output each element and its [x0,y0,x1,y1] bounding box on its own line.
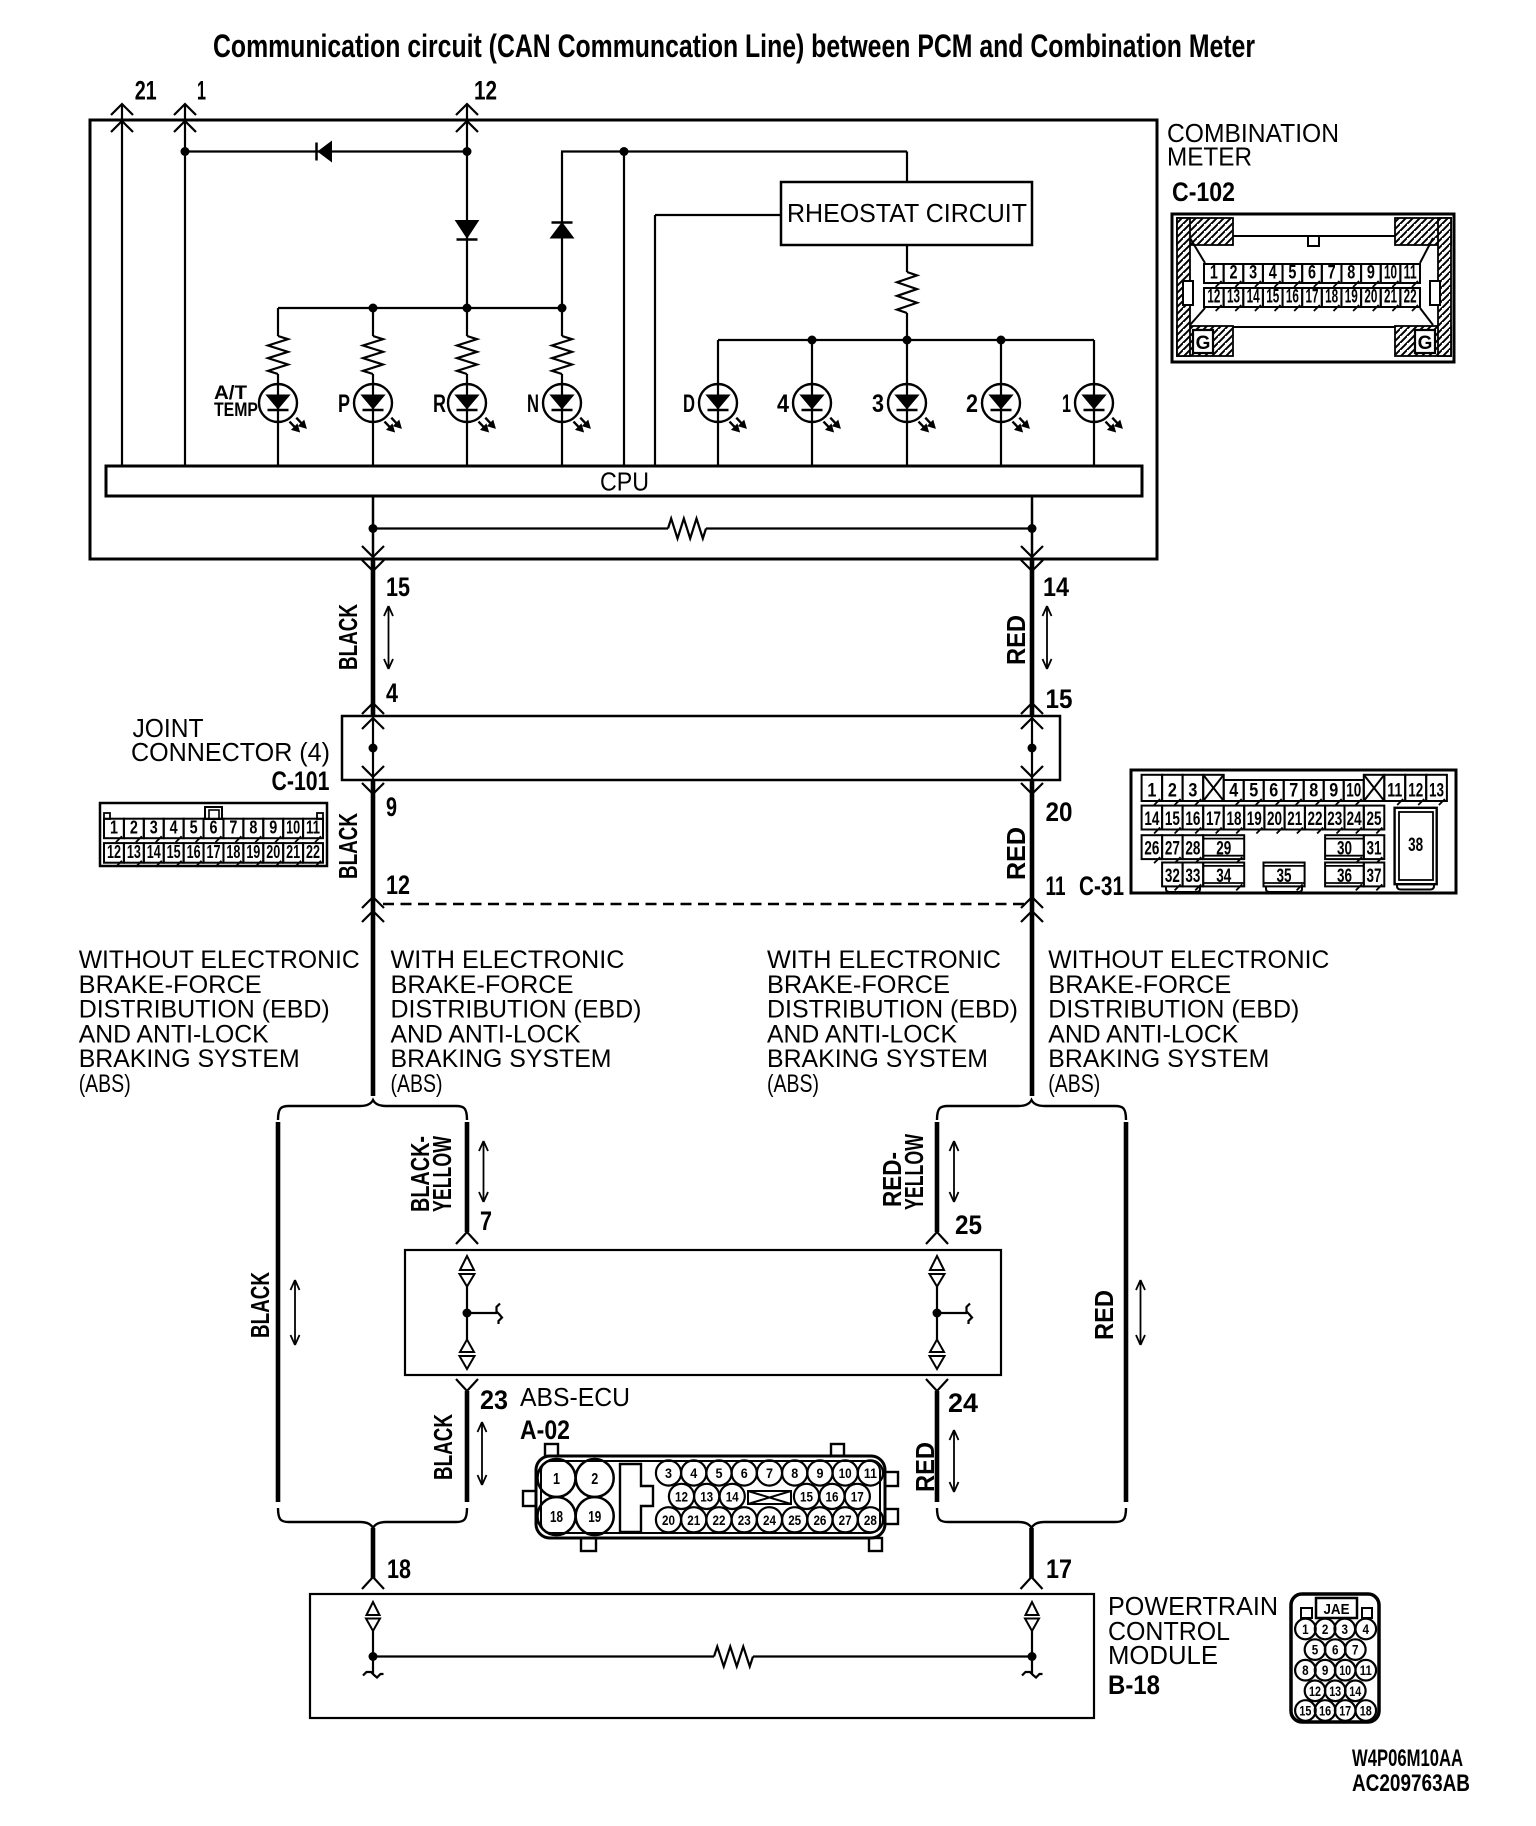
svg-text:17: 17 [1306,287,1319,308]
svg-text:25: 25 [788,1512,801,1528]
svg-text:27: 27 [839,1512,852,1528]
wire BLACK below pin23 [465,1391,470,1502]
divider crossing chevrons right [1021,897,1043,908]
svg-text:1: 1 [1302,1622,1309,1637]
svg-text:7: 7 [1352,1643,1359,1658]
svg-text:10: 10 [286,818,300,838]
wire stub pin18 [371,1528,376,1578]
wire RED-YELLOW branch [935,1122,940,1232]
PCM terminal symbol left [367,1602,380,1615]
svg-text:AC209763AB: AC209763AB [1352,1770,1470,1797]
ABS-ECU box [405,1250,1001,1375]
svg-text:14: 14 [147,842,161,862]
svg-text:15: 15 [1165,809,1180,830]
arrow black upper [388,606,390,669]
LED 1 with wire [1093,340,1095,466]
wire inside joint connector left [372,716,374,780]
wire CPU to pin14 (right drop) [1031,496,1034,559]
wire x624 down to CPU [623,152,625,467]
svg-text:18: 18 [550,1509,563,1526]
node pin12-rail junction [463,147,472,156]
svg-text:R: R [433,390,446,418]
svg-text:10: 10 [1339,1663,1351,1678]
svg-text:C-31: C-31 [1079,871,1124,901]
wire rheostat feed corner x907 [906,152,908,183]
svg-text:B-18: B-18 [1108,1670,1160,1700]
wire BLACK pin15 to joint connector [371,559,376,716]
left split brace [278,1100,467,1120]
svg-text:7: 7 [1328,263,1336,284]
svg-text:21: 21 [286,842,300,862]
diode D1 (left-pointing) on rail [319,143,331,161]
svg-text:(ABS): (ABS) [79,1070,131,1098]
LED N with wire to CPU [561,374,563,466]
arrow red-yellow [953,1141,955,1202]
left drop exit chevrons [362,546,384,557]
rheostat resistor R5 [906,245,908,272]
svg-text:16: 16 [826,1488,839,1504]
svg-text:9: 9 [386,792,397,822]
svg-text:15: 15 [800,1488,813,1504]
node bus2 x907 [903,336,912,345]
svg-text:AND ANTI-LOCK: AND ANTI-LOCK [1048,1020,1238,1048]
svg-text:RED: RED [1001,827,1031,880]
joint connector exit chevrons right [1021,766,1043,777]
svg-text:13: 13 [127,842,141,862]
svg-text:6: 6 [741,1465,748,1481]
svg-text:4: 4 [777,390,789,418]
svg-text:2: 2 [591,1471,598,1488]
pin 1 terminal chevrons [174,104,196,115]
svg-text:6: 6 [210,818,218,838]
joint connector exit chevrons left [362,766,384,777]
pin 12 terminal chevrons [456,104,478,115]
svg-text:BRAKE-FORCE: BRAKE-FORCE [79,971,262,999]
svg-text:Communication circuit (CAN Com: Communication circuit (CAN Communcation … [213,28,1255,64]
svg-text:1: 1 [1210,263,1218,284]
svg-text:15: 15 [386,572,410,602]
svg-text:8: 8 [791,1465,798,1481]
svg-text:DISTRIBUTION (EBD): DISTRIBUTION (EBD) [391,996,642,1024]
svg-text:N: N [527,390,539,418]
svg-text:3: 3 [1342,1622,1349,1637]
svg-text:13: 13 [1429,781,1444,802]
powertrain control module box [310,1594,1094,1718]
svg-text:G: G [1196,333,1211,354]
svg-text:WITH ELECTRONIC: WITH ELECTRONIC [391,946,625,974]
svg-text:BLACK: BLACK [333,604,363,670]
svg-text:20: 20 [1046,797,1073,827]
terminal birdfoot below ABS left [456,1379,467,1391]
svg-text:4: 4 [1229,781,1238,802]
svg-text:1: 1 [110,818,118,838]
svg-text:AND ANTI-LOCK: AND ANTI-LOCK [767,1020,957,1048]
svg-text:1: 1 [1062,390,1071,418]
svg-text:C-102: C-102 [1172,177,1235,207]
svg-text:RED: RED [1089,1290,1119,1340]
terminal birdfoot above ABS right [926,1232,937,1244]
svg-text:16: 16 [1286,287,1299,308]
svg-text:BLACK: BLACK [245,1272,275,1338]
svg-text:RHEOSTAT CIRCUIT: RHEOSTAT CIRCUIT [787,198,1027,228]
svg-text:BRAKING SYSTEM: BRAKING SYSTEM [79,1045,300,1073]
svg-text:9: 9 [816,1465,823,1481]
svg-text:17: 17 [1046,1554,1072,1584]
svg-text:23: 23 [1327,809,1342,830]
svg-text:8: 8 [1309,781,1318,802]
svg-text:21: 21 [135,76,157,106]
LED P with wire to CPU [372,374,374,466]
svg-text:18: 18 [1226,809,1241,830]
PCM internal resistor R7 row [373,1655,714,1657]
arrow red outer [1140,1280,1142,1345]
wire BLACK joint to branch point [371,780,376,1096]
arrow red upper [1046,606,1048,669]
svg-text:6: 6 [1308,263,1316,284]
bus1 horizontal y308 [278,307,562,309]
svg-text:11: 11 [1404,263,1417,284]
svg-text:4: 4 [170,818,178,838]
node bus1-N junction [558,304,567,313]
svg-text:3: 3 [1188,781,1197,802]
wire RED below pin24 [935,1391,940,1502]
wire RED outer branch [1124,1122,1129,1502]
right split brace [937,1100,1126,1120]
svg-text:19: 19 [588,1509,601,1526]
svg-text:8: 8 [1302,1663,1309,1678]
svg-text:22: 22 [306,842,320,862]
node rail-CPU junction x624 [620,147,629,156]
svg-text:5: 5 [1312,1643,1319,1658]
arrow below 23 [481,1422,483,1485]
svg-text:AND ANTI-LOCK: AND ANTI-LOCK [391,1020,581,1048]
svg-text:26: 26 [813,1512,826,1528]
svg-text:4: 4 [1363,1622,1370,1637]
wire pin21 vertical [121,104,123,466]
svg-text:TEMP: TEMP [214,400,258,421]
svg-text:2: 2 [1322,1622,1329,1637]
LED 2 with wire [1000,340,1002,466]
svg-text:WITHOUT ELECTRONIC: WITHOUT ELECTRONIC [1048,946,1329,974]
svg-text:2: 2 [1168,781,1177,802]
svg-text:27: 27 [1165,839,1180,860]
joint connector entry chevrons left [362,703,384,714]
resistor R2 (P) [372,308,374,336]
svg-text:24: 24 [763,1512,776,1528]
svg-text:22: 22 [1404,287,1417,308]
svg-text:12: 12 [1207,287,1220,308]
svg-text:8: 8 [249,818,257,838]
connector B-18 drawing [1291,1594,1379,1722]
svg-text:11: 11 [1046,871,1066,901]
svg-text:11: 11 [306,818,320,838]
svg-text:19: 19 [246,842,260,862]
svg-text:20: 20 [1267,809,1282,830]
svg-text:11: 11 [1387,781,1402,802]
svg-text:18: 18 [387,1554,411,1584]
svg-text:14: 14 [1043,572,1069,602]
svg-text:13: 13 [700,1488,713,1504]
svg-text:21: 21 [1287,809,1302,830]
svg-text:12: 12 [107,842,121,862]
ABS terminal symbol left [460,1256,474,1270]
CAN termination resistor R6 row [373,527,668,529]
wire BLACK-YELLOW branch [465,1122,470,1232]
svg-text:13: 13 [1227,287,1240,308]
svg-text:18: 18 [226,842,240,862]
svg-text:2: 2 [1229,263,1237,284]
diode D3 (up) on N branch [552,221,573,224]
connector C-31 drawing [1131,770,1456,893]
svg-text:38: 38 [1408,835,1423,856]
svg-text:2: 2 [966,390,978,418]
svg-text:37: 37 [1367,866,1382,887]
diode D2 (down) on pin12 branch [457,221,478,237]
svg-text:12: 12 [675,1488,688,1504]
svg-text:5: 5 [1249,781,1258,802]
svg-text:12: 12 [1309,1684,1321,1699]
svg-text:BRAKING SYSTEM: BRAKING SYSTEM [767,1045,988,1073]
svg-text:CPU: CPU [600,467,649,497]
svg-text:7: 7 [766,1465,773,1481]
svg-text:3: 3 [665,1465,672,1481]
node joint left [369,744,378,753]
svg-text:1: 1 [197,76,206,106]
svg-text:MODULE: MODULE [1108,1640,1218,1670]
node pin1-rail junction [181,147,190,156]
svg-text:16: 16 [187,842,201,862]
svg-text:22: 22 [1308,809,1323,830]
svg-text:6: 6 [1332,1643,1339,1658]
joint connector entry chevrons right [1021,703,1043,714]
svg-text:1: 1 [553,1471,560,1488]
wire RED pin14 to joint connector [1030,559,1035,716]
right drop exit chevrons [1021,546,1043,557]
svg-text:10: 10 [1384,263,1397,284]
svg-text:13: 13 [1329,1684,1341,1699]
rheostat circuit box [781,182,1032,245]
svg-text:28: 28 [1185,839,1200,860]
svg-text:17: 17 [1339,1704,1351,1719]
svg-text:19: 19 [1247,809,1262,830]
connector A-02 drawing [523,1444,898,1551]
node joint right [1028,744,1037,753]
svg-text:(ABS): (ABS) [1048,1070,1100,1098]
svg-text:28: 28 [864,1512,877,1528]
svg-text:22: 22 [712,1512,725,1528]
wire pin1 vertical [184,104,186,466]
svg-text:7: 7 [1289,781,1298,802]
wire N branch vertical upper [561,152,563,337]
svg-text:9: 9 [269,818,277,838]
svg-text:G: G [1418,333,1433,354]
svg-text:14: 14 [1144,809,1159,830]
svg-text:JAE: JAE [1324,1601,1350,1618]
wire stub pin17 [1029,1528,1034,1578]
svg-text:14: 14 [726,1488,739,1504]
connector C-102 drawing [1172,214,1454,362]
svg-text:WITHOUT ELECTRONIC: WITHOUT ELECTRONIC [79,946,360,974]
bus2 horizontal y340 [718,339,1094,341]
node bus2 x1001 [997,336,1006,345]
right merge brace [937,1508,1126,1528]
svg-text:4: 4 [1269,263,1277,284]
wire BLACK outer branch [276,1122,281,1502]
arrow black outer [294,1280,296,1345]
svg-text:18: 18 [1325,287,1338,308]
terminal birdfoot pin17 [1021,1577,1032,1589]
node bus2 x812 [808,336,817,345]
joint connector (4) box [342,716,1060,780]
svg-text:BLACK: BLACK [333,813,363,879]
svg-text:RED: RED [910,1442,940,1492]
connector C-101 drawing [100,803,327,867]
svg-text:3: 3 [872,390,884,418]
svg-text:DISTRIBUTION (EBD): DISTRIBUTION (EBD) [1048,996,1299,1024]
svg-text:YELLOW: YELLOW [899,1134,929,1210]
svg-text:5: 5 [190,818,198,838]
LED 4 with wire [811,340,813,466]
svg-text:YELLOW: YELLOW [427,1136,457,1212]
resistor R3 (R) [457,336,477,374]
svg-text:7: 7 [229,818,237,838]
svg-text:15: 15 [1046,684,1073,714]
svg-text:15: 15 [1266,287,1279,308]
terminal birdfoot pin18 [362,1577,373,1589]
svg-text:BRAKE-FORCE: BRAKE-FORCE [767,971,950,999]
svg-text:24: 24 [1347,809,1362,830]
pin 21 terminal chevrons [111,104,133,115]
svg-text:BRAKE-FORCE: BRAKE-FORCE [391,971,574,999]
svg-text:DISTRIBUTION (EBD): DISTRIBUTION (EBD) [767,996,1018,1024]
arrow black-yellow [483,1141,485,1202]
terminal birdfoot below ABS right [926,1379,937,1391]
svg-text:A-02: A-02 [520,1415,570,1445]
svg-text:(ABS): (ABS) [391,1070,443,1098]
ABS terminal symbol right [930,1256,944,1270]
svg-text:17: 17 [207,842,221,862]
svg-text:12: 12 [474,76,497,106]
svg-text:BRAKING SYSTEM: BRAKING SYSTEM [391,1045,612,1073]
svg-text:AND ANTI-LOCK: AND ANTI-LOCK [79,1020,269,1048]
svg-text:10: 10 [1346,781,1361,802]
svg-text:RED: RED [1001,615,1031,665]
resistor R4 (N) [552,336,572,374]
svg-text:5: 5 [1288,263,1296,284]
wire rail y152 left segment [185,150,467,152]
svg-text:14: 14 [1247,287,1260,308]
LED R with wire to CPU [466,374,468,466]
wire RED joint to branch point [1030,780,1035,1096]
svg-text:7: 7 [480,1206,492,1236]
wire rheostat left to CPU [655,214,781,216]
svg-text:17: 17 [1206,809,1221,830]
svg-text:P: P [338,390,350,418]
dashed option divider line [383,903,1026,905]
svg-text:BRAKING SYSTEM: BRAKING SYSTEM [1048,1045,1269,1073]
node bus1-P junction [369,304,378,313]
wire inside joint connector right [1031,716,1033,780]
svg-text:31: 31 [1367,839,1382,860]
arrow below 24 [953,1430,955,1492]
svg-text:10: 10 [839,1465,852,1481]
svg-text:23: 23 [738,1512,751,1528]
svg-text:18: 18 [1360,1704,1372,1719]
svg-text:9: 9 [1367,263,1375,284]
node right drop junction [1028,524,1037,533]
svg-text:20: 20 [1364,287,1377,308]
svg-text:21: 21 [1384,287,1397,308]
LED 3 with wire [906,340,908,466]
svg-text:W4P06M10AA: W4P06M10AA [1352,1745,1463,1772]
svg-text:25: 25 [1367,809,1382,830]
svg-text:9: 9 [1322,1663,1329,1678]
wire CPU to pin15 (left drop) [372,496,375,559]
svg-text:11: 11 [1360,1663,1372,1678]
terminal birdfoot above ABS left [456,1232,467,1244]
svg-text:23: 23 [480,1385,508,1415]
svg-text:CONNECTOR (4): CONNECTOR (4) [131,737,330,767]
svg-text:D: D [683,390,695,418]
CPU U1 box [106,466,1142,496]
svg-text:9: 9 [1329,781,1338,802]
svg-text:8: 8 [1347,263,1355,284]
wire pin12 vertical upper [466,104,468,336]
svg-text:3: 3 [1249,263,1257,284]
node left drop junction [369,524,378,533]
wire rail y152 right segment [561,150,907,152]
svg-text:15: 15 [1299,1704,1311,1719]
svg-text:11: 11 [864,1465,877,1481]
PCM terminal symbol right [1026,1602,1039,1615]
svg-text:26: 26 [1144,839,1159,860]
combination meter box [90,120,1157,559]
svg-text:21: 21 [687,1512,700,1528]
svg-text:33: 33 [1185,866,1200,887]
svg-text:15: 15 [167,842,181,862]
svg-text:25: 25 [955,1210,982,1240]
svg-text:17: 17 [851,1488,864,1504]
LED A/T TEMP with wire to CPU [277,374,279,466]
svg-text:16: 16 [1319,1704,1331,1719]
svg-text:6: 6 [1269,781,1278,802]
svg-text:14: 14 [1349,1684,1361,1699]
resistor R1 (A/T TEMP) [277,308,279,336]
svg-text:METER: METER [1167,142,1252,172]
svg-text:20: 20 [266,842,280,862]
left merge brace [278,1508,467,1528]
LED D with wire [717,340,719,466]
svg-text:4: 4 [386,678,398,708]
svg-text:32: 32 [1165,866,1180,887]
svg-text:WITH ELECTRONIC: WITH ELECTRONIC [767,946,1001,974]
svg-text:5: 5 [715,1465,722,1481]
svg-text:1: 1 [1147,781,1156,802]
svg-text:BLACK: BLACK [428,1414,458,1480]
svg-text:ABS-ECU: ABS-ECU [520,1382,630,1412]
svg-text:4: 4 [690,1465,697,1481]
divider crossing chevrons left [362,897,384,908]
svg-text:12: 12 [386,870,410,900]
svg-text:12: 12 [1408,781,1423,802]
svg-text:C-101: C-101 [272,766,330,796]
svg-text:16: 16 [1185,809,1200,830]
svg-text:BRAKE-FORCE: BRAKE-FORCE [1048,971,1231,999]
node bus1-R junction [463,304,472,313]
svg-text:(ABS): (ABS) [767,1070,819,1098]
svg-text:20: 20 [662,1512,675,1528]
svg-text:DISTRIBUTION (EBD): DISTRIBUTION (EBD) [79,996,330,1024]
